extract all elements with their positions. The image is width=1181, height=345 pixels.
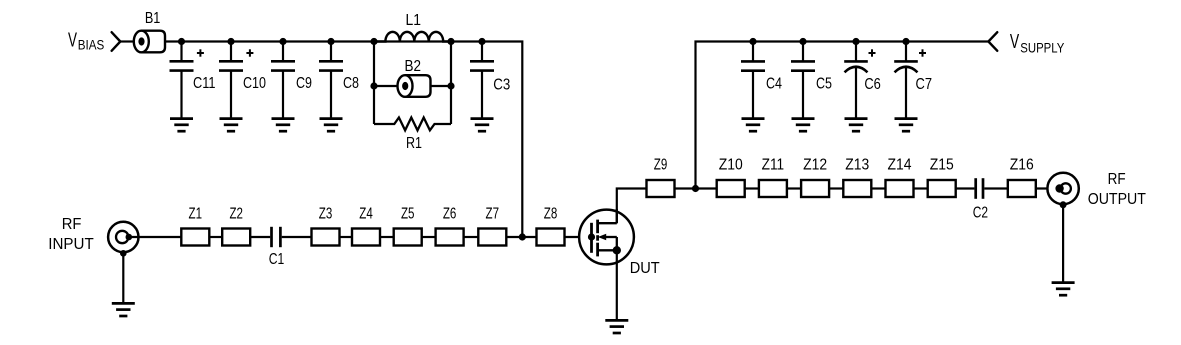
junction L1 left node: [370, 38, 377, 45]
impedance Z1: [181, 229, 209, 246]
svg-text:B2: B2: [405, 58, 422, 75]
svg-text:Z2: Z2: [229, 205, 243, 222]
capacitor C8: [319, 42, 343, 119]
wire Z8 to gate: [565, 236, 592, 238]
ground C3: [471, 119, 494, 132]
wire supply rail: [696, 42, 989, 189]
svg-text:Z5: Z5: [401, 205, 415, 222]
impedance Z3: [312, 229, 340, 246]
svg-text:C5: C5: [816, 76, 832, 93]
connector RF input jack: [108, 222, 138, 257]
svg-text:Z16: Z16: [1010, 156, 1034, 173]
label RF INPUT: [48, 216, 94, 253]
ground C10: [220, 119, 243, 132]
wire C1 to Z3: [282, 236, 312, 238]
wire C2 to Z16: [984, 187, 1008, 189]
junction C5 node: [799, 38, 806, 45]
junction C6 node: [852, 38, 859, 45]
wire bias rail: [165, 42, 522, 238]
junction B2 right node: [447, 82, 454, 89]
svg-text:V: V: [1010, 30, 1020, 53]
junction C7 node: [902, 38, 909, 45]
ground C11: [170, 119, 193, 132]
capacitor C3: [470, 42, 494, 119]
svg-text:Z3: Z3: [319, 205, 333, 222]
junction supply drain node: [692, 185, 699, 192]
ground C7: [895, 119, 918, 132]
ground C5: [792, 119, 815, 132]
svg-text:Z8: Z8: [544, 205, 558, 222]
input terminal VBIAS arrow: [112, 32, 121, 51]
wire Z11 to Z12: [787, 187, 801, 189]
impedance Z13: [843, 180, 871, 197]
svg-text:Z14: Z14: [888, 156, 912, 173]
junction gate node: [588, 233, 595, 240]
svg-text:C8: C8: [343, 75, 359, 92]
impedance Z12: [801, 180, 829, 197]
ground RF output: [1052, 283, 1075, 296]
impedance Z14: [886, 180, 914, 197]
junction C8 node: [327, 38, 334, 45]
node VSUPPLY label: [1010, 30, 1065, 56]
impedance Z10: [717, 180, 745, 197]
wire B2 right: [431, 85, 452, 87]
svg-text:Z9: Z9: [654, 156, 668, 173]
svg-text:C3: C3: [493, 76, 510, 93]
ground C6: [845, 119, 868, 132]
svg-text:C6: C6: [864, 76, 881, 93]
wire Z3 to Z4: [340, 236, 353, 238]
svg-text:C11: C11: [193, 75, 216, 92]
capacitor C5: [791, 42, 815, 119]
svg-text:R1: R1: [406, 135, 422, 152]
impedance Z6: [436, 229, 464, 246]
svg-text:Z6: Z6: [443, 205, 457, 222]
capacitor C1 (series): [272, 227, 281, 247]
wire Z13 to Z14: [871, 187, 885, 189]
ferrite bead B2: [398, 75, 431, 97]
svg-text:C10: C10: [243, 75, 266, 92]
svg-text:Z13: Z13: [845, 156, 869, 173]
wire Z6 to Z7: [464, 236, 479, 238]
svg-text:C2: C2: [973, 205, 988, 222]
wire drain to Z9: [617, 189, 647, 224]
wire Z1 to Z2: [209, 236, 222, 238]
junction C9 node: [279, 38, 286, 45]
wire Z16 to RF output: [1036, 187, 1059, 189]
wire Z5 to Z6: [422, 236, 436, 238]
capacitor C11: [170, 42, 204, 119]
wire Z2 to C1: [250, 236, 270, 238]
junction gate feed node: [519, 233, 526, 240]
wire RF output ground stem: [1062, 205, 1064, 283]
wire Z10 to Z11: [745, 187, 759, 189]
svg-text:Z12: Z12: [803, 156, 827, 173]
ferrite bead B1: [134, 31, 165, 53]
junction C11 node: [178, 38, 185, 45]
junction L1 right node: [447, 38, 454, 45]
ground C4: [742, 119, 765, 132]
capacitor C7 (polarized): [894, 42, 926, 119]
wire L1 left branch: [373, 42, 375, 125]
svg-text:Z1: Z1: [189, 205, 203, 222]
capacitor C10: [219, 42, 253, 119]
junction B2 left node: [370, 82, 377, 89]
terminal VSUPPLY arrow: [988, 32, 997, 51]
wire RF input ground stem: [122, 253, 124, 303]
svg-text:INPUT: INPUT: [48, 236, 94, 253]
wire Z12 to Z13: [829, 187, 843, 189]
wire B2 left: [374, 85, 398, 87]
impedance Z8: [537, 229, 565, 246]
wire DUT source ground stem: [616, 250, 618, 320]
svg-text:Z15: Z15: [930, 156, 954, 173]
capacitor C2 (series): [976, 178, 983, 199]
junction C4 node: [749, 38, 756, 45]
svg-text:SUPPLY: SUPPLY: [1020, 40, 1065, 56]
impedance Z7: [478, 229, 506, 246]
wire Z9 to Z10: [675, 187, 717, 189]
capacitor C4: [741, 42, 765, 119]
wire RF input to Z1: [129, 236, 182, 238]
svg-text:C4: C4: [766, 76, 782, 93]
capacitor C6 (polarized): [844, 42, 875, 119]
impedance Z4: [352, 229, 380, 246]
ground C8: [320, 119, 343, 132]
impedance Z2: [222, 229, 250, 246]
junction C3 node: [478, 38, 485, 45]
svg-text:BIAS: BIAS: [78, 37, 105, 53]
resistor R1: [374, 118, 451, 131]
ground C9: [272, 119, 295, 132]
label RF OUTPUT: [1088, 171, 1146, 208]
svg-text:Z10: Z10: [719, 156, 743, 173]
impedance Z5: [394, 229, 422, 246]
capacitor C9: [271, 42, 295, 119]
svg-text:DUT: DUT: [630, 260, 660, 277]
svg-text:C7: C7: [916, 76, 933, 93]
svg-text:C9: C9: [296, 75, 312, 92]
svg-text:Z11: Z11: [762, 156, 785, 173]
wire VBIAS to B1: [120, 40, 134, 42]
inductor L1: [374, 32, 451, 42]
svg-text:OUTPUT: OUTPUT: [1088, 191, 1146, 208]
wire Z7 to Z8: [506, 236, 536, 238]
connector RF output jack: [1047, 173, 1078, 209]
svg-text:Z7: Z7: [486, 205, 500, 222]
ground DUT: [605, 320, 628, 333]
svg-text:V: V: [68, 29, 77, 52]
svg-text:Z4: Z4: [359, 205, 373, 222]
wire L1 right branch: [450, 42, 452, 125]
wire Z15 to C2: [956, 187, 975, 189]
impedance Z11: [759, 180, 787, 197]
wire Z4 to Z5: [380, 236, 394, 238]
transistor DUT (MOSFET): [579, 209, 634, 264]
svg-text:RF: RF: [62, 216, 82, 233]
junction C10 node: [227, 38, 234, 45]
svg-text:L1: L1: [405, 12, 421, 29]
impedance Z9: [647, 180, 675, 197]
ground RF input: [112, 303, 135, 316]
svg-text:C1: C1: [269, 251, 285, 268]
impedance Z15: [928, 180, 956, 197]
node VBIAS label: [68, 29, 104, 53]
svg-text:B1: B1: [145, 10, 161, 27]
svg-text:RF: RF: [1108, 171, 1126, 188]
impedance Z16: [1008, 180, 1036, 197]
wire Z14 to Z15: [914, 187, 928, 189]
